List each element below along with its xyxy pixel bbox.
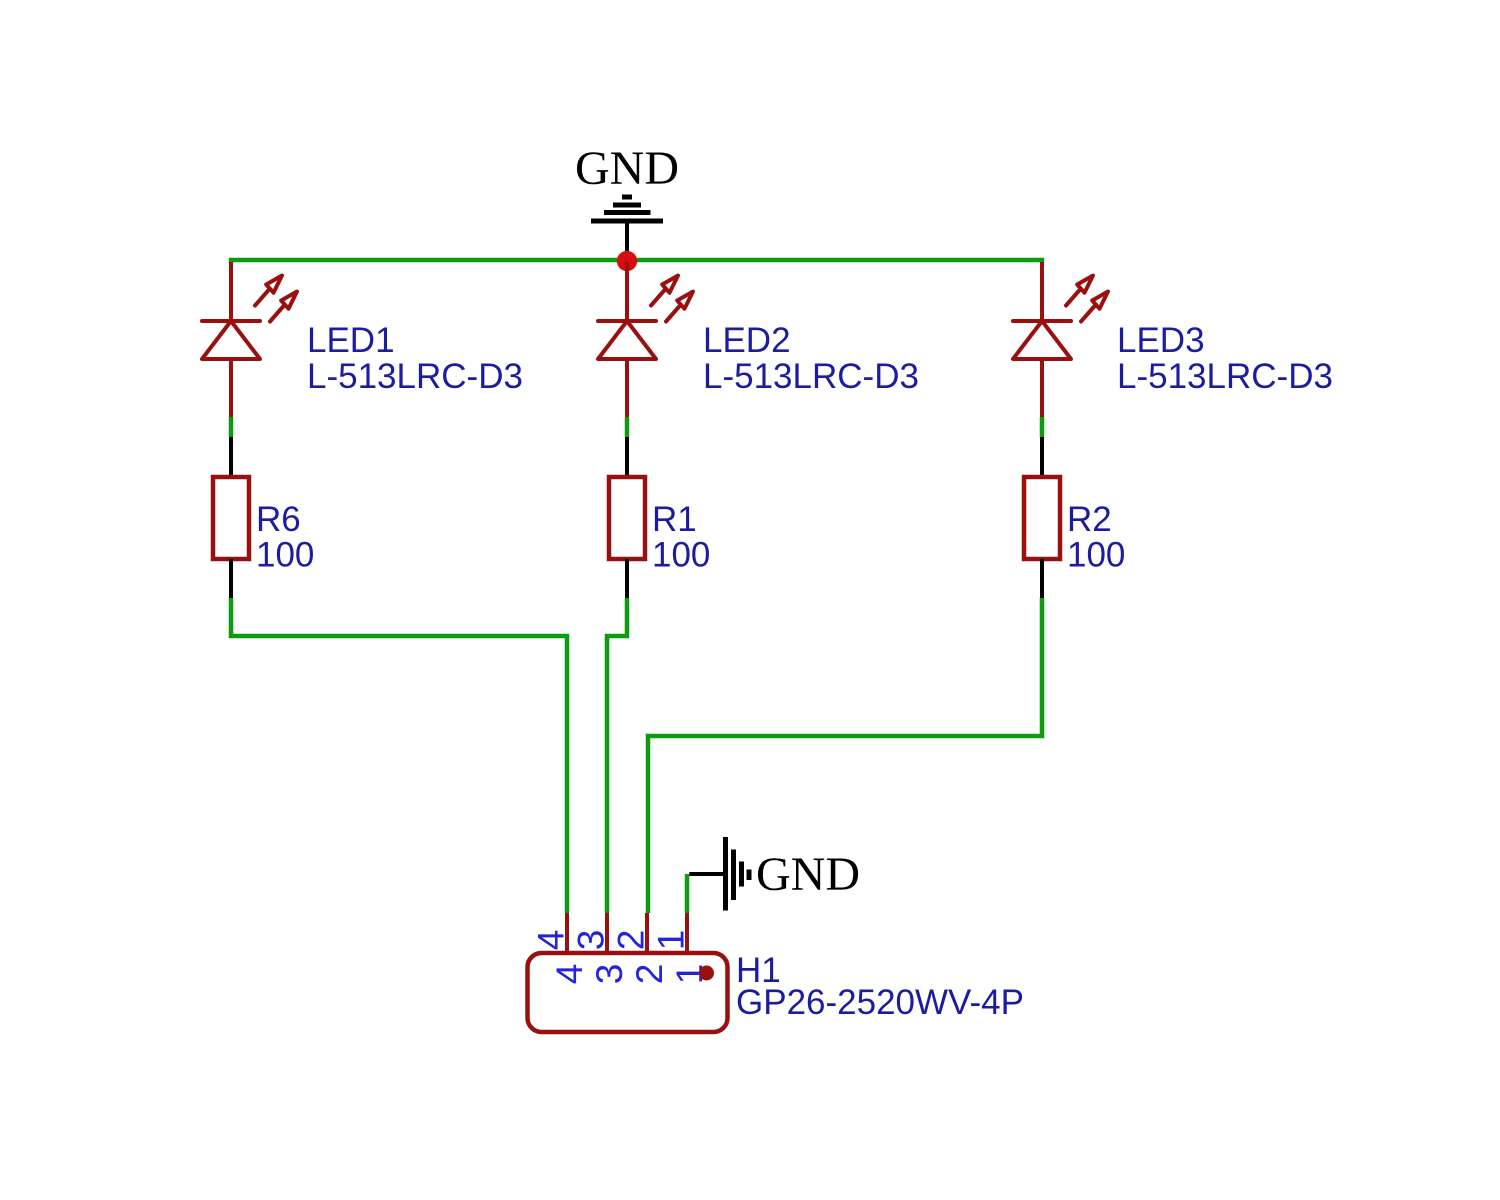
svg-text:LED3: LED3: [1117, 321, 1205, 360]
pin 1 marker dot: [699, 966, 714, 981]
label R6 reference: [256, 500, 301, 539]
svg-text:GP26-2520WV-4P: GP26-2520WV-4P: [736, 983, 1024, 1022]
svg-text:LED2: LED2: [703, 321, 791, 360]
connector H1 body: [528, 953, 728, 1032]
svg-text:100: 100: [256, 536, 314, 575]
wire R2 to H1 pin 2: [648, 598, 1042, 913]
label LED3 value: [1117, 357, 1333, 396]
resistor R1: [609, 437, 645, 598]
label LED2 reference: [703, 321, 791, 360]
LED LED3: [1013, 262, 1108, 417]
LED LED1: [202, 262, 297, 417]
svg-text:100: 100: [652, 536, 710, 575]
pin number 1: [651, 930, 692, 951]
svg-text:LED1: LED1: [307, 321, 395, 360]
resistor R6: [213, 437, 249, 598]
label R6 value 100: [256, 536, 314, 575]
svg-text:L-513LRC-D3: L-513LRC-D3: [307, 357, 523, 396]
label LED3 reference: [1117, 321, 1205, 360]
ground symbol GND (bottom): [689, 837, 860, 911]
svg-text:1: 1: [651, 930, 692, 951]
svg-text:3: 3: [589, 964, 630, 985]
label LED1 value: [307, 357, 523, 396]
label LED1 reference: [307, 321, 395, 360]
pin number 3: [571, 930, 612, 951]
wire LED3 cathode to R2: [1040, 417, 1045, 437]
pin name 3 inside: [589, 964, 630, 985]
pin stub H1 pin 3: [605, 913, 609, 953]
svg-text:4: 4: [549, 964, 590, 985]
svg-text:GND: GND: [575, 142, 679, 195]
svg-text:GND: GND: [756, 848, 860, 901]
junction dot net GND: [617, 251, 637, 271]
wire net GND top horizontal: [231, 260, 1042, 263]
pin stub H1 pin 4: [565, 913, 569, 953]
label H1 reference: [736, 951, 781, 990]
resistor R2: [1024, 437, 1060, 598]
svg-text:4: 4: [531, 930, 572, 951]
svg-text:2: 2: [611, 930, 652, 951]
svg-text:100: 100: [1067, 536, 1125, 575]
svg-text:2: 2: [629, 964, 670, 985]
pin name 1 inside: [669, 964, 710, 985]
power symbol GND (top): [575, 142, 679, 260]
wire LED1 cathode to R6: [229, 417, 234, 437]
pin name 4 inside: [549, 964, 590, 985]
svg-text:R6: R6: [256, 500, 301, 539]
pin stub H1 pin 2: [645, 913, 649, 953]
label R1 value 100: [652, 536, 710, 575]
pin number 4: [531, 930, 572, 951]
svg-text:R2: R2: [1067, 500, 1112, 539]
pin number 2: [611, 930, 652, 951]
label R2 reference: [1067, 500, 1112, 539]
svg-text:R1: R1: [652, 500, 697, 539]
wire R6 to H1 pin 4: [231, 598, 567, 913]
wire LED2 cathode to R1: [625, 417, 630, 437]
svg-text:L-513LRC-D3: L-513LRC-D3: [703, 357, 919, 396]
label H1 value: [736, 983, 1024, 1022]
label R2 value 100: [1067, 536, 1125, 575]
pin name 2 inside: [629, 964, 670, 985]
LED LED2: [598, 262, 693, 417]
label LED2 value: [703, 357, 919, 396]
pin stub H1 pin 1: [685, 913, 689, 953]
label R1 reference: [652, 500, 697, 539]
svg-text:L-513LRC-D3: L-513LRC-D3: [1117, 357, 1333, 396]
wire R1 to H1 pin 3: [607, 598, 627, 913]
svg-text:3: 3: [571, 930, 612, 951]
wire H1 pin 1 to GND: [685, 874, 690, 913]
